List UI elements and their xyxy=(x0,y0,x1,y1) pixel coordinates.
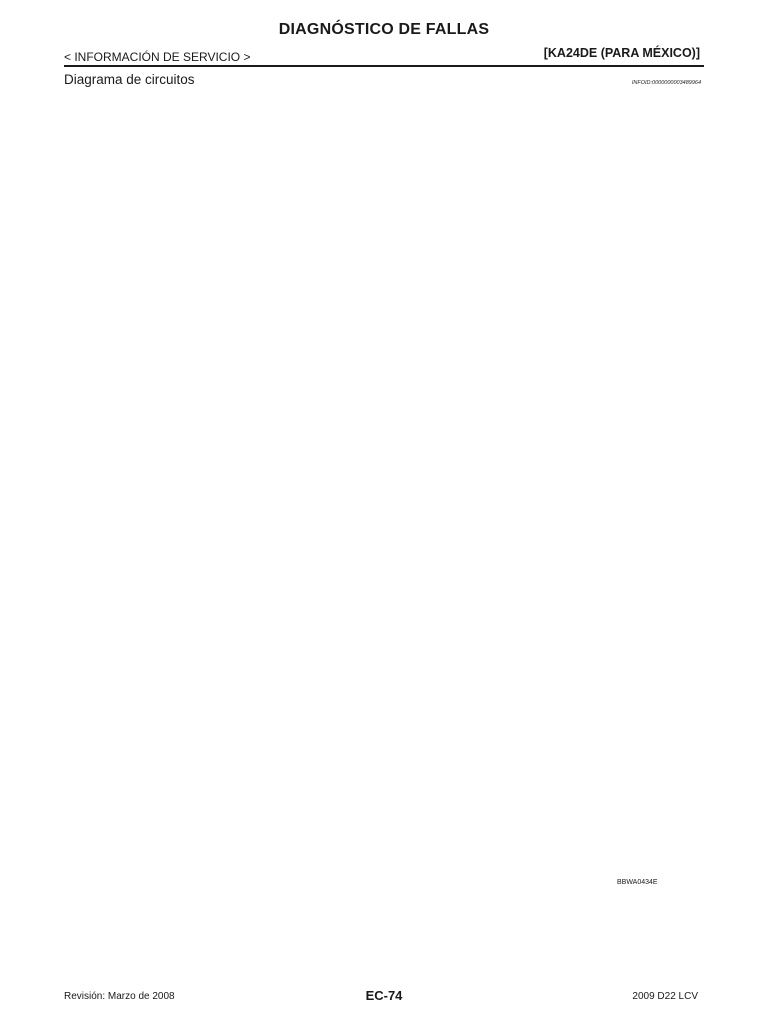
header right section xyxy=(544,46,700,60)
header rule xyxy=(64,65,704,67)
header title xyxy=(0,21,768,39)
section heading xyxy=(64,72,195,87)
footer model xyxy=(632,991,698,1002)
footer revision xyxy=(64,991,175,1002)
footer page number xyxy=(0,988,768,1003)
header left breadcrumb xyxy=(64,50,250,64)
infoid xyxy=(632,80,701,86)
figure code xyxy=(617,879,658,886)
